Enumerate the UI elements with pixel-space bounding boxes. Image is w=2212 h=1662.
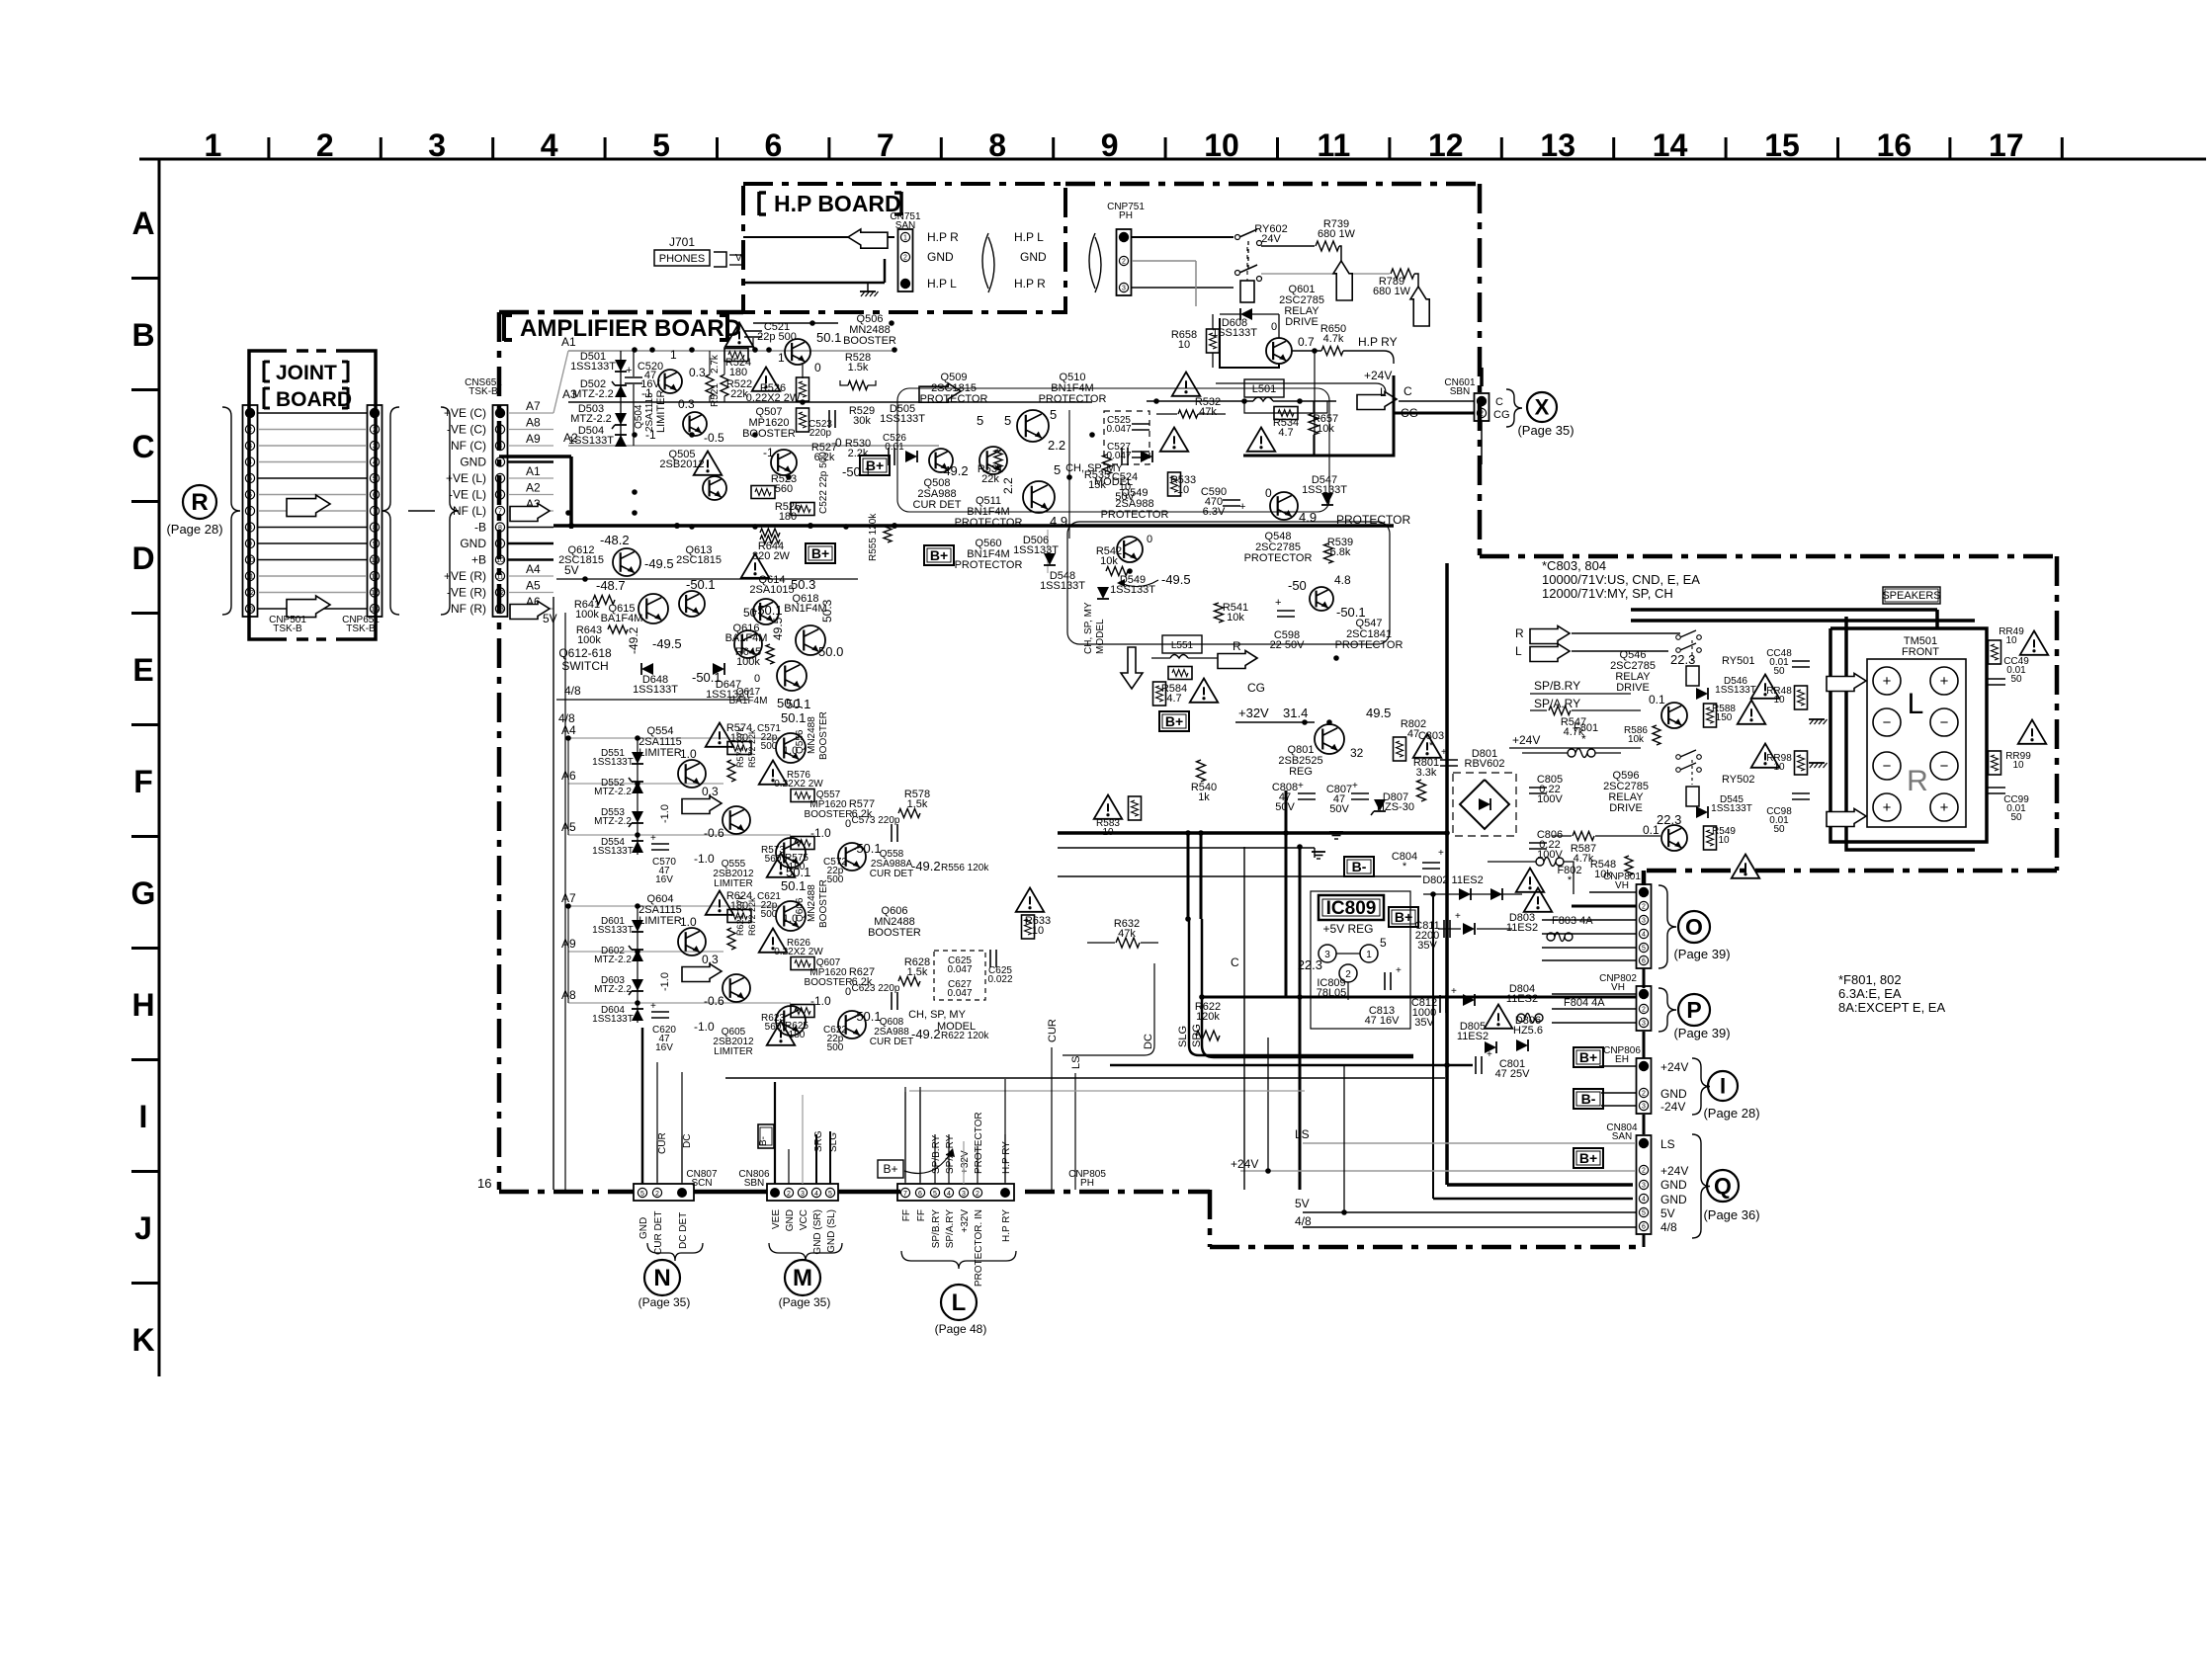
svg-text:GND: GND	[460, 456, 486, 469]
svg-text:0: 0	[845, 818, 851, 830]
C521	[752, 338, 754, 351]
svg-text:RY501: RY501	[1722, 655, 1754, 667]
svg-text:N: N	[653, 1265, 670, 1291]
svg-text:0: 0	[814, 361, 821, 374]
svg-text:1.0: 1.0	[783, 913, 798, 925]
svg-text:A1: A1	[561, 335, 576, 349]
svg-text:12000/71V:MY, SP, CH: 12000/71V:MY, SP, CH	[1542, 586, 1673, 601]
svg-text:SAN: SAN	[1612, 1131, 1633, 1142]
svg-text:0: 0	[845, 986, 851, 998]
svg-text:BOARD: BOARD	[276, 388, 352, 411]
svg-text:+: +	[650, 1001, 656, 1012]
svg-text:5: 5	[1004, 413, 1011, 428]
B+ box	[860, 456, 890, 475]
svg-text:M: M	[793, 1265, 812, 1291]
svg-text:*: *	[1568, 874, 1573, 886]
svg-text:0.047: 0.047	[1106, 424, 1131, 435]
svg-text:1SS133T: 1SS133T	[592, 757, 634, 768]
svg-text:FF: FF	[916, 1209, 927, 1221]
svg-text:MTZ-2.2: MTZ-2.2	[594, 816, 632, 827]
svg-text:3: 3	[428, 127, 446, 163]
svg-text:5: 5	[828, 1191, 832, 1198]
R connector circle	[183, 485, 216, 519]
svg-text:10k: 10k	[1628, 734, 1645, 745]
boxed resistor under L551	[1168, 667, 1192, 680]
svg-text:H.P RY: H.P RY	[1001, 1141, 1012, 1174]
svg-text:LIMITER: LIMITER	[714, 878, 752, 889]
svg-text:3: 3	[1642, 1183, 1646, 1190]
svg-text:CUR DET: CUR DET	[653, 1211, 664, 1255]
svg-text:10: 10	[1032, 925, 1044, 937]
svg-text:1SS133T: 1SS133T	[880, 413, 925, 425]
svg-text:13: 13	[371, 607, 379, 614]
arrows on A3 and A6 wires	[510, 504, 550, 522]
svg-text:1SS133T: 1SS133T	[592, 925, 634, 936]
svg-text:1: 1	[670, 348, 677, 362]
svg-text:2SC1815: 2SC1815	[676, 554, 722, 566]
svg-text:GND: GND	[1020, 250, 1047, 264]
svg-text:+: +	[1451, 986, 1457, 997]
svg-text:5V: 5V	[1660, 1206, 1675, 1220]
svg-text:LS: LS	[1660, 1137, 1675, 1151]
mid transistors	[678, 760, 706, 788]
svg-text:PROTECTOR: PROTECTOR	[1244, 552, 1313, 564]
svg-text:B+: B+	[866, 457, 884, 473]
svg-text:CH, SP, MY: CH, SP, MY	[1083, 602, 1094, 654]
svg-text:MN2488: MN2488	[807, 884, 817, 922]
svg-text:500: 500	[827, 1042, 844, 1053]
F802 fuse	[1536, 858, 1544, 866]
svg-text:50V: 50V	[1329, 803, 1349, 815]
arrow in HP board	[848, 229, 888, 248]
svg-text:L: L	[1908, 688, 1924, 720]
svg-text:+24V: +24V	[1512, 733, 1540, 747]
svg-text:6: 6	[1642, 1224, 1646, 1231]
svg-text:-49.5: -49.5	[652, 636, 682, 651]
arrow to CN601	[1357, 392, 1397, 410]
svg-text:-49.5: -49.5	[644, 556, 674, 571]
svg-text:8: 8	[373, 525, 377, 532]
svg-text:GND: GND	[785, 1209, 796, 1231]
svg-text:TSK-B: TSK-B	[273, 623, 302, 634]
svg-text:1: 1	[205, 127, 222, 163]
svg-text:PROTECTOR: PROTECTOR	[955, 559, 1023, 571]
svg-text:BOOSTER: BOOSTER	[868, 927, 921, 939]
joint board outline	[249, 351, 376, 639]
svg-text:SP/B.RY: SP/B.RY	[1534, 679, 1580, 693]
svg-text:4: 4	[1642, 932, 1646, 939]
svg-text:0.1: 0.1	[1643, 823, 1659, 837]
svg-text:+VE (L): +VE (L)	[446, 471, 486, 485]
svg-text:EH: EH	[1615, 1054, 1629, 1065]
svg-text:5: 5	[498, 476, 502, 483]
svg-text:2: 2	[1122, 259, 1126, 266]
svg-text:4: 4	[541, 127, 558, 163]
column ticks	[267, 137, 270, 159]
svg-text:50: 50	[2010, 674, 2022, 685]
svg-text:-VE (R): -VE (R)	[447, 586, 486, 600]
svg-text:8: 8	[988, 127, 1006, 163]
RR98/CC98	[1751, 744, 1780, 768]
svg-text:+: +	[626, 365, 632, 376]
svg-text:PROTECTOR: PROTECTOR	[974, 1112, 984, 1174]
R583	[1094, 795, 1123, 819]
speaker heavy wire loops	[1830, 628, 1987, 842]
svg-text:2: 2	[498, 427, 502, 434]
svg-text:+: +	[1352, 781, 1358, 791]
svg-text:2: 2	[1345, 969, 1351, 980]
svg-text:−: −	[1940, 714, 1949, 731]
svg-text:Q504: Q504	[634, 404, 644, 429]
border ruler top line	[139, 158, 2206, 161]
svg-text:680 1W: 680 1W	[1373, 286, 1411, 297]
svg-text:R572 22k: R572 22k	[747, 729, 757, 768]
svg-text:+: +	[1455, 911, 1461, 922]
svg-text:REG: REG	[1289, 766, 1313, 778]
svg-text:+: +	[1487, 1049, 1492, 1060]
svg-text:PH: PH	[1080, 1178, 1094, 1189]
model caps box	[1104, 411, 1149, 464]
svg-text:-1.0: -1.0	[810, 826, 831, 840]
svg-text:-48.7: -48.7	[596, 578, 626, 593]
svg-text:2: 2	[976, 1191, 979, 1198]
svg-text:-1.0: -1.0	[659, 972, 671, 991]
svg-text:1.5k: 1.5k	[907, 798, 928, 810]
amplifier board title	[502, 314, 506, 341]
wire jack to CN751	[743, 236, 894, 238]
svg-text:1SS133T: 1SS133T	[1715, 685, 1756, 696]
svg-text:50.1: 50.1	[816, 330, 841, 345]
svg-text:LIMITER: LIMITER	[714, 1046, 752, 1057]
svg-text:+: +	[650, 833, 656, 844]
svg-text:5: 5	[248, 476, 252, 483]
svg-text:H.P RY: H.P RY	[1001, 1209, 1012, 1242]
svg-text:-B: -B	[474, 521, 486, 535]
svg-text:3: 3	[1642, 918, 1646, 925]
svg-text:LIMITER: LIMITER	[638, 915, 681, 927]
big arrow down	[1121, 647, 1143, 689]
border ruler left line	[158, 159, 161, 1376]
svg-text:1SS133T: 1SS133T	[592, 846, 634, 857]
svg-text:B+: B+	[811, 545, 829, 561]
svg-text:MTZ-2.2: MTZ-2.2	[594, 984, 632, 995]
svg-text:R: R	[191, 489, 208, 516]
svg-text:+B: +B	[471, 553, 486, 567]
svg-text:+5V REG: +5V REG	[1322, 922, 1373, 936]
svg-text:5: 5	[1380, 936, 1387, 950]
svg-text:*C803, 804: *C803, 804	[1542, 558, 1606, 573]
svg-text:-50.1: -50.1	[686, 577, 716, 592]
joint board connectors CNP501/CNP651	[243, 405, 258, 617]
svg-text:10: 10	[1178, 339, 1190, 351]
svg-text:10: 10	[1204, 127, 1239, 163]
svg-text:22.3: 22.3	[1298, 957, 1322, 972]
svg-text:7: 7	[373, 509, 377, 516]
svg-text:GND: GND	[638, 1217, 649, 1239]
svg-text:C: C	[1231, 956, 1239, 969]
svg-text:180: 180	[779, 511, 797, 523]
svg-text:49.5: 49.5	[1366, 706, 1391, 720]
svg-text:B-: B-	[758, 1136, 769, 1146]
long vertical drops to bottom connectors	[641, 1049, 643, 1182]
svg-text:1.5k: 1.5k	[848, 362, 869, 374]
svg-text:A9: A9	[526, 432, 541, 446]
svg-text:-VE (L): -VE (L)	[449, 488, 486, 502]
svg-text:PROTECTOR: PROTECTOR	[1101, 509, 1169, 521]
svg-text:5: 5	[1054, 462, 1061, 477]
B- heavy corner wire	[569, 457, 573, 529]
svg-text:-49.2: -49.2	[939, 463, 969, 478]
svg-text:A5: A5	[526, 579, 541, 593]
svg-text:(Page 35): (Page 35)	[1517, 423, 1574, 438]
svg-text:FF: FF	[901, 1209, 912, 1221]
svg-text:H.P R: H.P R	[1014, 277, 1046, 291]
svg-text:32: 32	[1350, 746, 1364, 760]
svg-text:10k: 10k	[1594, 869, 1612, 880]
svg-text:*: *	[1403, 861, 1407, 873]
svg-text:-1.0: -1.0	[659, 804, 671, 823]
svg-text:12: 12	[1428, 127, 1464, 163]
svg-text:H.P L: H.P L	[927, 277, 957, 291]
svg-text:(Page 48): (Page 48)	[935, 1322, 987, 1336]
svg-text:47 16V: 47 16V	[1365, 1015, 1401, 1027]
R534 boxed	[1274, 407, 1298, 420]
svg-text:PROTECTOR. IN: PROTECTOR. IN	[974, 1209, 984, 1287]
arrows up	[1333, 261, 1352, 300]
svg-text:4/8: 4/8	[1660, 1220, 1677, 1234]
svg-text:3: 3	[498, 444, 502, 451]
R584	[1153, 682, 1166, 706]
svg-text:A7: A7	[526, 399, 541, 413]
svg-text:2SA1115: 2SA1115	[644, 392, 655, 432]
svg-text:100V: 100V	[1537, 793, 1563, 805]
booster Q506	[785, 339, 810, 365]
I circle	[1708, 1071, 1738, 1101]
svg-text:6: 6	[373, 492, 377, 499]
svg-text:+: +	[1298, 781, 1304, 791]
svg-text:SWITCH: SWITCH	[561, 659, 608, 673]
svg-text:4.8: 4.8	[1334, 573, 1351, 587]
svg-text:0.022: 0.022	[987, 974, 1012, 985]
svg-text:1SS133T: 1SS133T	[592, 1014, 634, 1025]
svg-text:0: 0	[1265, 486, 1272, 500]
svg-text:5: 5	[1642, 1210, 1646, 1217]
svg-text:5: 5	[933, 1191, 937, 1198]
svg-text:2: 2	[248, 427, 252, 434]
svg-text:GND: GND	[1660, 1087, 1687, 1101]
svg-text:-0.5: -0.5	[704, 431, 724, 445]
svg-text:35V: 35V	[1417, 940, 1437, 952]
svg-text:3: 3	[1642, 1104, 1646, 1111]
svg-text:-VE (C): -VE (C)	[447, 423, 486, 437]
svg-text:4.7k: 4.7k	[1564, 726, 1584, 738]
svg-text:50.1: 50.1	[786, 697, 810, 711]
svg-text:10000/71V:US, CND, E, EA: 10000/71V:US, CND, E, EA	[1542, 572, 1700, 587]
svg-text:R672 22k: R672 22k	[747, 897, 757, 936]
svg-text:0: 0	[1271, 321, 1277, 333]
svg-text:*F801, 802: *F801, 802	[1838, 972, 1902, 987]
svg-text:1SS133T: 1SS133T	[1110, 584, 1155, 596]
svg-text:150: 150	[1716, 712, 1733, 723]
svg-text:100V: 100V	[1537, 849, 1563, 861]
svg-text:3: 3	[801, 1191, 805, 1198]
connector column links	[1643, 968, 1646, 988]
svg-text:LIMITER: LIMITER	[655, 390, 667, 433]
svg-text:-48.2: -48.2	[600, 533, 630, 547]
arrow	[682, 964, 722, 982]
svg-text:-49.5: -49.5	[1161, 572, 1191, 587]
svg-text:10: 10	[1773, 695, 1785, 706]
svg-text:IC809: IC809	[1326, 898, 1377, 919]
protector wire loop channel C	[897, 388, 1329, 512]
svg-text:6: 6	[765, 127, 783, 163]
svg-text:17: 17	[1989, 127, 2024, 163]
svg-text:-1.0: -1.0	[694, 852, 715, 866]
svg-text:12: 12	[496, 590, 504, 597]
svg-text:16: 16	[477, 1176, 491, 1191]
svg-text:11ES2: 11ES2	[1457, 1031, 1489, 1042]
svg-text:2: 2	[1642, 1091, 1646, 1098]
svg-text:9: 9	[1101, 127, 1119, 163]
svg-text:10: 10	[1102, 827, 1114, 838]
svg-text:10: 10	[1718, 835, 1730, 846]
svg-text:RBV602: RBV602	[1465, 758, 1505, 770]
svg-text:2: 2	[903, 255, 907, 262]
svg-text:GND (SR): GND (SR)	[812, 1209, 823, 1255]
svg-text:JOINT: JOINT	[276, 362, 337, 384]
svg-text:A7: A7	[561, 891, 576, 905]
svg-text:SBN: SBN	[1450, 386, 1471, 397]
svg-text:VH: VH	[1615, 880, 1629, 891]
svg-text:DC: DC	[1143, 1034, 1154, 1049]
svg-text:1: 1	[778, 351, 785, 365]
svg-text:MTZ-2.2: MTZ-2.2	[594, 787, 632, 797]
svg-text:R556 120k: R556 120k	[941, 863, 989, 873]
svg-text:BA1F4M: BA1F4M	[601, 613, 643, 624]
svg-text:AMPLIFIER BOARD: AMPLIFIER BOARD	[520, 315, 741, 342]
svg-text:PROTECTOR: PROTECTOR	[920, 393, 988, 405]
svg-text:CUR: CUR	[1047, 1019, 1059, 1042]
C625/C627 dashed model box	[934, 951, 985, 1000]
Q507 booster transistor	[771, 450, 797, 475]
svg-text:D802 11ES2: D802 11ES2	[1422, 874, 1484, 886]
booster top	[776, 901, 806, 931]
svg-text:-1.0: -1.0	[694, 1020, 715, 1034]
svg-text:A: A	[131, 206, 154, 241]
svg-text:7: 7	[248, 509, 252, 516]
svg-text:0.047: 0.047	[1106, 451, 1131, 461]
svg-text:X: X	[1535, 394, 1550, 419]
Q508 cur det	[979, 447, 1007, 474]
svg-text:H.P L: H.P L	[1014, 230, 1044, 244]
mid transistors	[678, 928, 706, 956]
svg-text:(Page 35): (Page 35)	[638, 1295, 691, 1309]
svg-text:NF (C): NF (C)	[451, 439, 486, 453]
svg-text:0.3: 0.3	[678, 397, 695, 411]
svg-text:2: 2	[1642, 1007, 1646, 1014]
svg-text:500: 500	[827, 874, 844, 885]
svg-text:H.P R: H.P R	[927, 230, 959, 244]
H.P board outline	[743, 184, 1065, 312]
svg-text:1: 1	[1366, 950, 1372, 960]
svg-text:I: I	[1720, 1073, 1726, 1098]
svg-text:CG: CG	[1493, 409, 1510, 421]
svg-text:1SS133T: 1SS133T	[1040, 580, 1085, 592]
svg-text:+VE (C): +VE (C)	[444, 406, 486, 420]
svg-text:PROTECTOR: PROTECTOR	[1335, 639, 1404, 651]
svg-text:VCC: VCC	[799, 1209, 809, 1230]
svg-text:C: C	[1495, 396, 1503, 408]
svg-text:1SS133T: 1SS133T	[570, 361, 616, 373]
svg-text:50: 50	[1773, 824, 1785, 835]
svg-text:47 25V: 47 25V	[1495, 1068, 1531, 1080]
C520 electrolytic	[625, 376, 642, 378]
svg-text:+: +	[1396, 965, 1402, 976]
svg-text:(Page 36): (Page 36)	[1703, 1207, 1759, 1222]
svg-text:2: 2	[1642, 904, 1646, 911]
C523/R529	[828, 410, 830, 428]
svg-text:13: 13	[246, 607, 254, 614]
svg-text:PH: PH	[1119, 210, 1133, 221]
svg-text:VH: VH	[1611, 982, 1625, 993]
svg-text:O: O	[1685, 914, 1703, 940]
svg-text:PROTECTOR: PROTECTOR	[1039, 393, 1107, 405]
svg-text:22 50V: 22 50V	[1270, 639, 1306, 651]
svg-text:9: 9	[373, 541, 377, 548]
svg-text:7: 7	[903, 1191, 907, 1198]
svg-text:B+: B+	[1579, 1150, 1597, 1166]
svg-text:0: 0	[754, 673, 760, 685]
svg-text:5: 5	[1642, 946, 1646, 953]
svg-text:F803 4A: F803 4A	[1552, 915, 1593, 927]
diode ladder	[637, 906, 638, 1023]
svg-text:Q: Q	[1714, 1173, 1732, 1199]
svg-text:B-: B-	[1352, 859, 1367, 874]
H.P board title	[757, 192, 761, 215]
svg-text:3: 3	[1122, 286, 1126, 292]
svg-text:-1: -1	[763, 446, 774, 459]
X connector circle	[1527, 392, 1557, 422]
svg-text:10: 10	[1773, 762, 1785, 773]
svg-text:D: D	[131, 540, 154, 576]
svg-text:24V: 24V	[1261, 233, 1281, 245]
svg-text:7: 7	[498, 509, 502, 516]
svg-text:22k: 22k	[981, 473, 999, 485]
svg-text:A2: A2	[526, 481, 541, 495]
svg-text:3: 3	[373, 444, 377, 451]
svg-text:GND: GND	[460, 537, 486, 550]
svg-text:NF (L): NF (L)	[453, 504, 486, 518]
P circle	[1678, 994, 1710, 1026]
svg-text:-50: -50	[1288, 578, 1307, 593]
svg-text:SPEAKERS: SPEAKERS	[1882, 590, 1940, 602]
CG heavy wire	[1243, 413, 1475, 456]
heavy bus stubs from CNS651	[508, 460, 553, 463]
svg-text:B+: B+	[1579, 1049, 1597, 1065]
svg-text:SBN: SBN	[744, 1178, 765, 1189]
svg-text:0.22X2 2W: 0.22X2 2W	[774, 779, 823, 789]
svg-text:3: 3	[1324, 950, 1330, 960]
relay RY602 contacts	[1235, 235, 1240, 240]
svg-text:MTZ-2.2: MTZ-2.2	[594, 955, 632, 965]
svg-text:50.1: 50.1	[781, 878, 806, 893]
arrow	[682, 796, 722, 814]
svg-text:0.7: 0.7	[1298, 335, 1315, 349]
svg-text:0.3: 0.3	[689, 366, 706, 379]
lower transistors	[723, 806, 750, 834]
svg-text:2: 2	[787, 1191, 791, 1198]
svg-text:BOOSTER: BOOSTER	[818, 711, 829, 760]
